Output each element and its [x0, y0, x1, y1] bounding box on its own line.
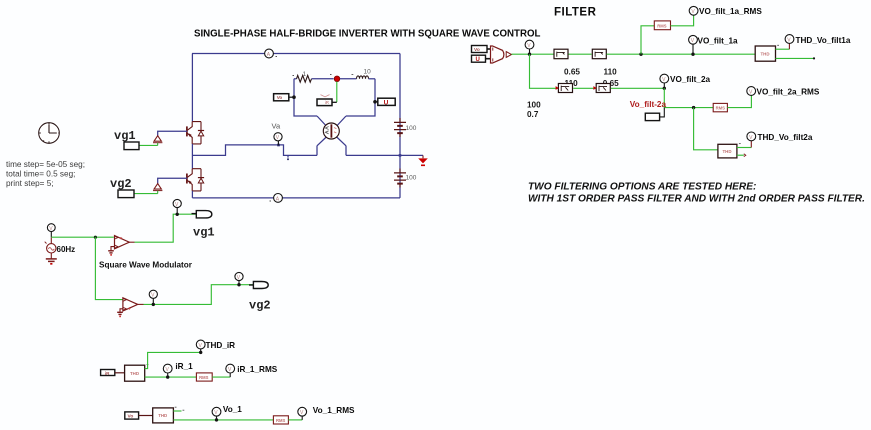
node vg2 out junction — [152, 303, 155, 306]
svg-text:THD: THD — [761, 52, 770, 57]
wire THD4 out1 stub — [173, 410, 181, 412]
voltmeter probe iR_1_RMS — [226, 364, 278, 377]
inductor L load — [340, 69, 375, 79]
label tag Vo from bottom — [125, 412, 153, 420]
gate wire Q1 — [158, 131, 188, 135]
svg-text:RMS: RMS — [716, 106, 726, 111]
wire junction down to comparator U2 — [95, 237, 123, 299]
wire THD4 out2 to RMS4 — [173, 419, 273, 421]
voltmeter probe THD_Vo_filt1a — [785, 35, 851, 45]
wire F2 to THD1 — [607, 53, 756, 55]
comparator U1 — [115, 236, 130, 249]
svg-text:VO_filt_2a_RMS: VO_filt_2a_RMS — [757, 87, 820, 96]
voltmeter probe VO_filt_2a — [660, 74, 711, 88]
wire left rail — [191, 54, 193, 122]
svg-text:Vo_filt-2a: Vo_filt-2a — [630, 100, 667, 109]
node vg1 junction — [176, 213, 179, 216]
svg-text:Vo: Vo — [128, 414, 134, 420]
svg-text:print step= 5;: print step= 5; — [6, 179, 54, 188]
filter block B1 second order — [556, 84, 573, 93]
wire vg2 source to gate — [134, 193, 158, 195]
voltmeter probe Vo_1 — [212, 405, 242, 420]
svg-text:total time= 0.5 seg;: total time= 0.5 seg; — [6, 169, 75, 178]
wire THD3 out1 to THD_iR probe — [145, 352, 201, 368]
svg-text:vg1: vg1 — [114, 129, 136, 143]
wire THD1 out1 to probe — [776, 48, 790, 50]
svg-text:10: 10 — [364, 69, 372, 76]
voltmeter probe filter input — [525, 40, 534, 54]
wire vg1 source to gate — [139, 144, 158, 146]
svg-text:VO_filt_1a: VO_filt_1a — [698, 36, 738, 45]
svg-text:Vo_1: Vo_1 — [223, 405, 242, 414]
svg-text:0.7: 0.7 — [527, 110, 539, 119]
svg-text:FILTER: FILTER — [554, 7, 597, 19]
wire top rail — [192, 53, 400, 55]
voltmeter probe iR_1 — [163, 362, 193, 377]
label tag Vo left — [274, 94, 296, 101]
node iR_1 junction — [166, 375, 169, 378]
wire F1 to F2 — [569, 53, 592, 55]
label tag iR from — [101, 370, 125, 377]
filter block F1 first order — [554, 49, 568, 59]
node battery midpoint — [399, 154, 402, 157]
THD3 block — [125, 365, 149, 382]
node filter input junction — [528, 53, 531, 56]
svg-text:Square Wave Modulator: Square Wave Modulator — [99, 261, 193, 270]
ground comparator U1 — [108, 247, 114, 255]
svg-text:THD_Vo_filt2a: THD_Vo_filt2a — [758, 133, 813, 142]
voltmeter probe VO_filt_1a — [689, 35, 738, 54]
svg-text:Va: Va — [272, 122, 281, 131]
node midrail tick — [287, 155, 289, 157]
ammeter A2 bottom — [270, 194, 283, 203]
wire THD2 out1 to probe — [737, 147, 751, 149]
machine bridge circle — [317, 116, 346, 155]
voltmeter probe vg2 — [235, 272, 243, 284]
THD4 block — [153, 407, 177, 423]
node THD2 branch junction — [692, 106, 695, 109]
RMS3 block — [196, 373, 212, 381]
wire load right to battery rail — [346, 154, 400, 156]
wire RMS3 to iR_1_RMS probe — [212, 376, 230, 378]
svg-text:time step= 5e-05 seg;: time step= 5e-05 seg; — [6, 160, 85, 169]
svg-text:THD_Vo_filt1a: THD_Vo_filt1a — [796, 36, 851, 45]
svg-text:100: 100 — [406, 125, 417, 132]
wire branch to 2nd order filters — [530, 54, 560, 88]
voltmeter probe source — [47, 224, 55, 237]
wire comparator U1 output to vg1 tag — [129, 241, 134, 243]
filter block B2 second order — [593, 84, 610, 93]
wire ground tee — [400, 154, 423, 156]
svg-text:Vo_1_RMS: Vo_1_RMS — [313, 406, 355, 415]
ground source — [46, 259, 57, 264]
wire up to RMS1 — [641, 26, 654, 54]
THD1 block — [755, 45, 779, 61]
wire bottom rail — [192, 197, 400, 199]
svg-text:SINGLE-PHASE HALF-BRIDGE INVER: SINGLE-PHASE HALF-BRIDGE INVERTER WITH S… — [194, 29, 541, 40]
svg-text:110: 110 — [604, 67, 618, 76]
svg-text:0.65: 0.65 — [564, 67, 580, 76]
wire RMS2 to probe — [727, 95, 751, 107]
wire current flag green — [336, 82, 338, 102]
node VO_filt_1a junction — [691, 53, 694, 56]
svg-text:VO_filt_2a: VO_filt_2a — [670, 75, 710, 84]
wire midpoint rail to load — [192, 145, 317, 156]
svg-text:RMS: RMS — [199, 375, 209, 380]
wire RMS4 to Vo_1_RMS probe — [288, 419, 302, 421]
svg-text:U: U — [384, 99, 389, 106]
wire THD3 out2 to RMS3 — [145, 376, 197, 378]
voltmeter Va probe — [272, 122, 283, 145]
label tag vg2 goto — [253, 282, 268, 289]
voltmeter probe VO_filt_2a_RMS — [747, 87, 820, 97]
source sine 60Hz — [45, 237, 75, 258]
label tag vg1 goto — [196, 211, 212, 218]
RMS4 block — [273, 416, 288, 424]
wire subcircuit left — [294, 79, 317, 116]
svg-text:Vo: Vo — [277, 95, 283, 100]
filter block F2 first order — [592, 49, 606, 59]
svg-text:THD: THD — [158, 413, 167, 418]
node Va junction — [277, 144, 280, 147]
resistor R load — [293, 71, 334, 82]
svg-text:THD: THD — [130, 371, 139, 376]
vg1 source box — [124, 142, 139, 150]
svg-text:iR_1_RMS: iR_1_RMS — [237, 365, 278, 374]
wire right rail — [399, 54, 401, 198]
ground power — [418, 155, 428, 165]
node modulator junction — [94, 236, 97, 239]
svg-text:WITH 1ST ORDER PASS FILTER AND: WITH 1ST ORDER PASS FILTER AND WITH 2nd … — [528, 194, 865, 205]
svg-text:TWO FILTERING OPTIONS ARE TEST: TWO FILTERING OPTIONS ARE TESTED HERE: — [528, 182, 756, 193]
gating block G2 triangle — [153, 184, 162, 194]
gate wire Q2 — [158, 178, 188, 183]
svg-text:VO_filt_1a_RMS: VO_filt_1a_RMS — [699, 7, 762, 16]
svg-text:Vo: Vo — [474, 47, 480, 53]
node VO_filt_2a junction — [663, 87, 666, 90]
battery V1 — [394, 118, 417, 137]
svg-text:iR: iR — [325, 100, 329, 105]
svg-text:1: 1 — [303, 71, 307, 78]
voltmeter probe VO_filt_1a_RMS — [689, 6, 762, 16]
svg-text:vg2: vg2 — [110, 177, 132, 191]
wire THD2 out2 stub — [737, 154, 744, 156]
wire RMS1 to probe — [671, 15, 694, 26]
voltmeter probe vg1 — [173, 199, 181, 214]
node vg2 junction — [237, 283, 240, 286]
wire comparator U2 output to vg2 tag — [138, 303, 144, 305]
svg-text:vg1: vg1 — [193, 226, 215, 240]
svg-text:THD_iR: THD_iR — [206, 341, 236, 350]
wire source to comparator — [51, 236, 114, 238]
gating block G1 triangle — [153, 136, 162, 146]
ground comparator U2 — [117, 309, 123, 317]
svg-text:100: 100 — [406, 175, 417, 182]
svg-text:iR_1: iR_1 — [175, 362, 193, 371]
voltmeter probe THD_iR — [196, 340, 235, 352]
wire Q1 emitter to midpoint — [191, 144, 193, 169]
svg-text:60Hz: 60Hz — [57, 245, 76, 254]
current sensor box iR — [317, 95, 337, 106]
node Vo_1 junction — [215, 418, 218, 421]
wire VO_filt_2a down and right — [664, 88, 713, 107]
IGBT Q1 top — [187, 122, 204, 144]
THD2 block — [718, 144, 741, 158]
node THD_iR junction — [199, 351, 202, 354]
comparator U2 — [123, 298, 138, 311]
voltmeter probe Vo_1_RMS — [298, 406, 355, 420]
label tag Vo_filt-2a goto — [645, 108, 664, 121]
svg-text:iR: iR — [105, 371, 110, 376]
wire B1 to B2 — [573, 87, 596, 89]
svg-text:U: U — [476, 57, 480, 63]
label tag Vo from — [472, 46, 491, 54]
label tag U right — [373, 98, 395, 106]
svg-text:RMS: RMS — [276, 418, 286, 423]
clock symbol — [39, 123, 60, 144]
wire subcircuit right — [346, 79, 375, 116]
svg-text:100: 100 — [527, 100, 541, 109]
wire Q2 emitter to bottom rail — [191, 191, 193, 198]
svg-text:vg2: vg2 — [249, 299, 271, 313]
RMS2 block — [713, 103, 727, 111]
voltmeter probe THD_Vo_filt2a — [747, 132, 813, 142]
svg-text:RMS: RMS — [657, 23, 667, 28]
node red dot — [334, 76, 340, 82]
RMS1 block — [654, 21, 670, 30]
battery V2 — [394, 169, 417, 188]
vg2 source box — [118, 190, 134, 198]
summer block — [491, 46, 512, 63]
node RMS1 branch junction — [639, 53, 642, 56]
wire B2 to VO_filt_2a node — [611, 87, 665, 89]
ammeter A1 top — [265, 49, 277, 58]
wire THD1 out2 — [776, 57, 814, 59]
voltmeter probe U2 out — [149, 290, 157, 304]
svg-text:THD: THD — [723, 149, 732, 154]
label tag U from — [472, 55, 491, 63]
wire down to THD2 — [694, 108, 718, 150]
IGBT Q2 bottom — [187, 169, 204, 191]
wire summer to filters — [512, 53, 554, 55]
